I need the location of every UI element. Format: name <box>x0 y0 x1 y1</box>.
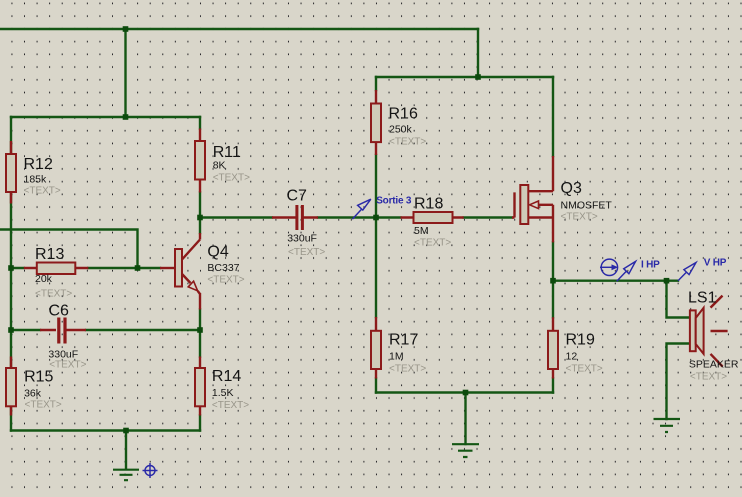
svg-text:<TEXT>: <TEXT> <box>414 238 451 249</box>
label R16 <box>389 106 418 123</box>
svg-text:R17: R17 <box>389 332 418 349</box>
svg-text:R11: R11 <box>213 144 241 161</box>
ground (middle) <box>452 444 479 457</box>
svg-text:NMOSFET: NMOSFET <box>561 200 613 212</box>
transistor Q4 <box>160 233 200 310</box>
value 250k <box>389 123 413 135</box>
junction node C6 right <box>197 327 203 333</box>
text R14 <box>212 400 249 411</box>
wire Q3 output column <box>552 77 554 393</box>
wire ground stub mid <box>464 393 466 445</box>
label R15 <box>24 369 53 386</box>
junction node C6 left <box>8 327 14 333</box>
ground (bottom left) <box>113 470 139 481</box>
wire bottom left rail <box>11 431 200 470</box>
label R19 <box>566 332 595 349</box>
svg-text:330uF: 330uF <box>287 233 317 245</box>
wire signal row <box>200 216 512 218</box>
text R11 <box>213 173 250 184</box>
svg-text:<TEXT>: <TEXT> <box>49 359 86 370</box>
probe V HP voltage <box>678 263 696 281</box>
svg-text:250k: 250k <box>389 123 413 135</box>
label LS1 <box>688 290 717 307</box>
text R12 <box>24 185 61 196</box>
value 1.5K <box>212 387 234 399</box>
resistor R12 <box>6 141 16 204</box>
svg-text:<TEXT>: <TEXT> <box>566 364 603 375</box>
value 185k <box>24 174 48 186</box>
ground (speaker) <box>654 419 681 432</box>
capacitor C7 <box>272 205 318 230</box>
value 8K <box>213 160 226 172</box>
label C7 <box>287 188 308 205</box>
wire R13 row <box>11 267 160 269</box>
svg-text:SPEAKER: SPEAKER <box>689 359 739 371</box>
svg-text:R16: R16 <box>389 106 418 123</box>
junction node speaker <box>664 278 670 284</box>
svg-text:Q3: Q3 <box>561 180 582 197</box>
resistor R15 <box>6 357 16 416</box>
wire top rail VCC <box>0 28 478 30</box>
value 20k <box>35 273 53 285</box>
wire right upper rail <box>376 76 553 78</box>
wire R12-R11 top link <box>11 116 200 118</box>
transistor Q3 NMOSFET <box>512 156 553 242</box>
resistor R14 <box>195 357 205 416</box>
label R17 <box>389 332 418 349</box>
value NMOSFET <box>561 200 613 212</box>
resistor R11 <box>195 129 205 193</box>
text R19 <box>566 364 603 375</box>
label R14 <box>212 368 241 385</box>
wire speaker branch <box>667 281 691 419</box>
svg-text:<TEXT>: <TEXT> <box>389 137 426 148</box>
resistor R16 <box>371 90 381 155</box>
svg-text:1M: 1M <box>389 351 404 363</box>
junction node Sortie3 <box>373 215 379 221</box>
text R16 <box>389 137 426 148</box>
label V HP <box>704 258 727 269</box>
probe I HP current <box>600 259 636 281</box>
svg-text:1.5K: 1.5K <box>212 387 234 399</box>
label R12 <box>24 156 53 173</box>
wire output row <box>553 280 678 282</box>
wire mid rail R16-R17 <box>375 77 377 393</box>
svg-text:12: 12 <box>566 351 578 363</box>
junction node R12-R11 <box>123 114 129 120</box>
wire feedback stub <box>0 230 138 269</box>
node Sortie 3 pointer <box>352 199 370 219</box>
value 12 <box>566 351 578 363</box>
value 36k <box>24 387 42 399</box>
resistor R13 <box>24 263 89 275</box>
resistor R17 <box>371 317 381 379</box>
value 1M <box>389 351 404 363</box>
svg-text:<TEXT>: <TEXT> <box>207 275 244 286</box>
junction node VCC/right <box>475 74 481 80</box>
text Q3 <box>561 212 598 223</box>
capacitor C6 <box>40 318 86 344</box>
text LS1 <box>690 372 727 383</box>
svg-text:C7: C7 <box>287 188 308 205</box>
value 330uF C6 <box>48 349 78 361</box>
text R18 <box>414 238 451 249</box>
svg-text:<TEXT>: <TEXT> <box>24 185 61 196</box>
svg-text:<TEXT>: <TEXT> <box>212 400 249 411</box>
svg-text:LS1: LS1 <box>688 290 717 307</box>
label C6 <box>49 303 70 320</box>
value 5M <box>414 225 429 237</box>
wire left rail <box>10 117 12 431</box>
resistor R18 <box>401 212 464 223</box>
svg-text:I HP: I HP <box>641 260 660 271</box>
resistor R19 <box>548 317 558 378</box>
label R18 <box>414 196 443 213</box>
text C6 <box>49 359 86 370</box>
svg-text:R12: R12 <box>24 156 53 173</box>
svg-text:<TEXT>: <TEXT> <box>389 364 426 375</box>
svg-text:8K: 8K <box>213 160 226 172</box>
svg-text:R13: R13 <box>35 246 64 263</box>
text C7 <box>288 247 325 258</box>
text R17 <box>389 364 426 375</box>
text R15 <box>25 400 62 411</box>
label Q4 <box>207 244 228 261</box>
wire vcc drop to node <box>477 29 479 77</box>
junction node output <box>550 278 556 284</box>
junction node R13 left <box>8 265 14 271</box>
value BC337 <box>207 262 239 274</box>
svg-text:R14: R14 <box>212 368 241 385</box>
svg-text:<TEXT>: <TEXT> <box>25 400 62 411</box>
junction node R13 right <box>135 265 141 271</box>
svg-text:R19: R19 <box>566 332 595 349</box>
text R13 <box>35 289 72 300</box>
origin marker <box>143 463 158 478</box>
junction node bottom mid ground <box>463 390 469 396</box>
value SPEAKER <box>689 359 739 371</box>
svg-text:V HP: V HP <box>704 258 727 269</box>
text Q4 <box>207 275 244 286</box>
svg-text:5M: 5M <box>414 225 429 237</box>
value 330uF C7 <box>287 233 317 245</box>
wire bottom mid rail <box>376 391 553 393</box>
svg-text:<TEXT>: <TEXT> <box>213 173 250 184</box>
label R11 <box>213 144 241 161</box>
svg-text:<TEXT>: <TEXT> <box>288 247 325 258</box>
svg-text:BC337: BC337 <box>207 262 239 274</box>
svg-text:R18: R18 <box>414 196 443 213</box>
label Q3 <box>561 180 582 197</box>
svg-text:<TEXT>: <TEXT> <box>690 372 727 383</box>
svg-text:36k: 36k <box>24 387 42 399</box>
label R13 <box>35 246 64 263</box>
label Sortie 3 <box>376 196 412 207</box>
svg-text:<TEXT>: <TEXT> <box>35 289 72 300</box>
svg-text:20k: 20k <box>35 273 53 285</box>
wire C6 row <box>11 329 200 331</box>
wire left vcc drop <box>124 29 126 117</box>
svg-text:R15: R15 <box>24 369 53 386</box>
junction node collector/C7 <box>197 215 203 221</box>
svg-text:C6: C6 <box>49 303 70 320</box>
junction node VCC/left <box>123 26 129 32</box>
wire R11 column <box>199 117 201 431</box>
svg-text:Sortie 3: Sortie 3 <box>376 196 412 207</box>
svg-text:<TEXT>: <TEXT> <box>561 212 598 223</box>
label I HP <box>641 260 660 271</box>
speaker LS1 <box>690 296 728 367</box>
svg-text:Q4: Q4 <box>207 244 228 261</box>
svg-text:185k: 185k <box>24 174 48 186</box>
junction node bottom left ground <box>123 428 129 434</box>
